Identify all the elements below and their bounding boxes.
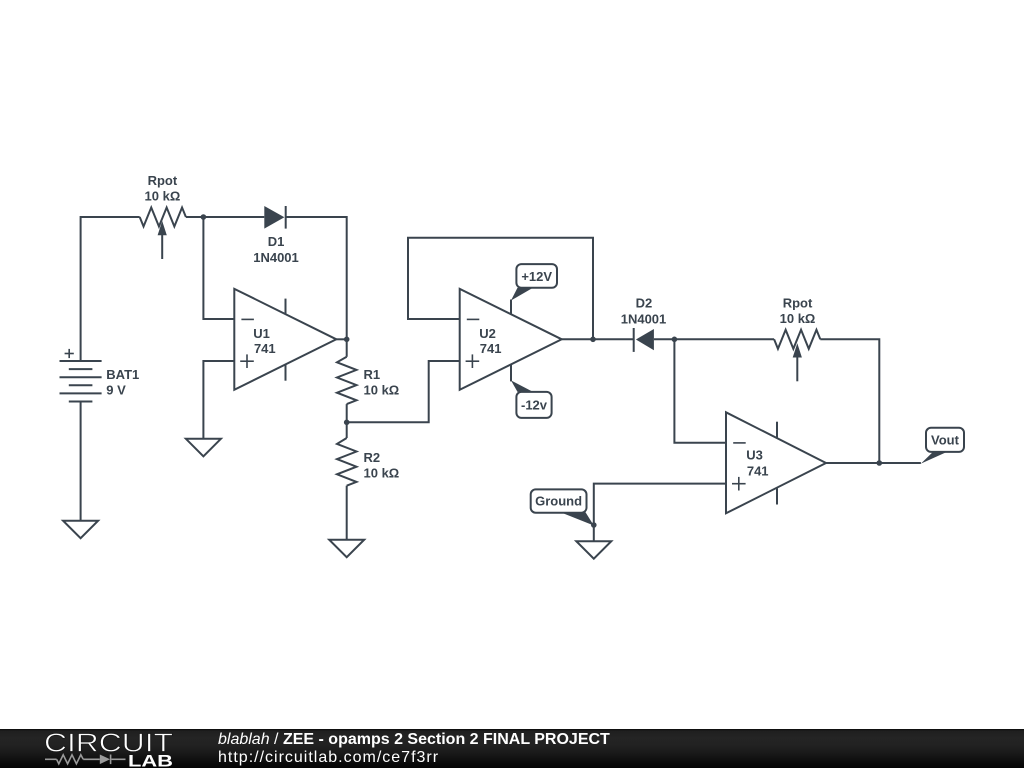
svg-text:Ground: Ground: [535, 494, 582, 509]
wire U2 output: [562, 338, 634, 340]
svg-text:1N4001: 1N4001: [253, 250, 299, 265]
op-amp U3: [726, 412, 826, 513]
svg-text:U3: U3: [746, 447, 763, 462]
resistor R2: [337, 422, 357, 539]
svg-text:10 kΩ: 10 kΩ: [780, 311, 816, 326]
svg-text:U1: U1: [253, 326, 270, 341]
svg-text:D1: D1: [268, 234, 285, 249]
net label Vout flag: [921, 428, 964, 464]
svg-text:741: 741: [480, 341, 502, 356]
ground under battery: [63, 521, 98, 539]
wire U3 output to Vout: [826, 462, 921, 464]
potentiometer Rpot right wiper arrow: [793, 343, 802, 381]
op-amp U2: [460, 289, 562, 390]
net label Ground flag: [531, 489, 594, 525]
bottom brand bar: [0, 729, 1024, 768]
wire junction down to U1 minus: [203, 217, 234, 319]
potentiometer Rpot right zigzag: [774, 330, 820, 349]
voltage label -12v pin: [511, 364, 552, 418]
wire battery bottom to ground: [80, 402, 82, 521]
svg-text:U2: U2: [479, 326, 496, 341]
node D2 junction: [672, 337, 678, 343]
svg-text:741: 741: [254, 341, 276, 356]
svg-text:R2: R2: [364, 450, 381, 465]
node R1/R2 junction: [344, 420, 350, 426]
wire R1/R2 junction to U2 plus: [347, 361, 460, 422]
wire U2 feedback loop: [408, 238, 593, 339]
wire battery top vertical: [81, 217, 140, 361]
voltage label +12V pin: [511, 264, 557, 314]
title text: [218, 731, 610, 749]
resistor R1: [337, 339, 357, 422]
wire pot to diode D1: [186, 216, 264, 218]
svg-text:Rpot: Rpot: [783, 296, 813, 311]
svg-text:-12v: -12v: [521, 398, 548, 413]
logo squiggle resistor-diode: [45, 755, 126, 765]
node junction at pot/D1/U1-: [201, 214, 207, 220]
diode D1: [264, 206, 285, 229]
node ground label attach: [591, 522, 597, 528]
svg-text:R1: R1: [364, 367, 381, 382]
wire U1 output stub: [336, 338, 346, 340]
wire U1 plus input to ground: [203, 361, 234, 439]
url text: [218, 749, 439, 767]
wire Rpot right to output column: [820, 339, 879, 463]
svg-text:+12V: +12V: [521, 269, 552, 284]
svg-text:D2: D2: [636, 296, 653, 311]
svg-text:741: 741: [747, 464, 769, 479]
op-amp U1: [234, 289, 336, 390]
wire D2 to Rpot right: [654, 338, 774, 340]
svg-text:10 kΩ: 10 kΩ: [364, 465, 400, 480]
ground under R2: [329, 540, 364, 558]
potentiometer Rpot left zigzag: [140, 208, 186, 227]
ground under Ground label: [576, 541, 611, 559]
svg-text:Rpot: Rpot: [148, 173, 178, 188]
node U3 output junction: [877, 460, 883, 466]
svg-text:10 kΩ: 10 kΩ: [364, 382, 400, 397]
wire U3 plus to ground column: [594, 484, 726, 542]
svg-text:BAT1: BAT1: [106, 367, 139, 382]
ground under U1: [186, 439, 221, 457]
svg-text:9 V: 9 V: [106, 383, 126, 398]
node U1 output: [344, 337, 350, 343]
svg-text:Vout: Vout: [931, 433, 960, 448]
svg-text:1N4001: 1N4001: [621, 311, 667, 326]
node U2 output junction: [590, 337, 596, 343]
svg-text:LAB: LAB: [128, 752, 173, 769]
wire D1 to U1 output column: [286, 217, 347, 339]
svg-text:10 kΩ: 10 kΩ: [145, 188, 181, 203]
diode D2: [634, 328, 654, 352]
potentiometer Rpot left wiper arrow: [158, 221, 167, 259]
wire D2 junction down to U3 minus: [674, 339, 726, 443]
battery BAT1 plates: [60, 349, 102, 402]
